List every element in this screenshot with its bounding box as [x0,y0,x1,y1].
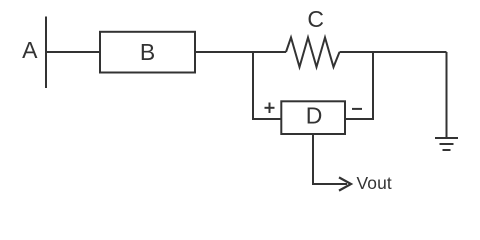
wire A to B [46,51,100,53]
antenna terminal line (node A) [45,17,47,89]
block B [100,32,195,73]
output wire down from D [313,135,347,184]
wire B to resistor [196,51,286,53]
svg-text:A: A [22,37,38,63]
wire resistor to ground leg [340,51,447,53]
feedback left vertical wire (junction to + input) [253,52,281,119]
resistor C [286,38,340,68]
minus sign [352,108,362,110]
svg-text:C: C [307,6,324,32]
ground symbol [435,137,458,139]
ground vertical wire [446,52,448,138]
block D [281,101,345,134]
feedback right vertical wire (- input to output node) [346,52,373,119]
arrowhead [339,177,351,190]
svg-text:B: B [140,39,155,65]
svg-text:Vout: Vout [357,173,392,193]
plus sign [265,107,275,109]
svg-text:D: D [306,103,323,129]
